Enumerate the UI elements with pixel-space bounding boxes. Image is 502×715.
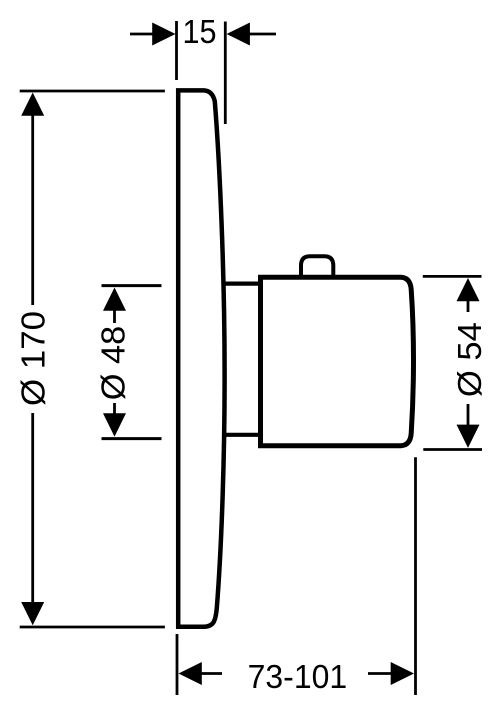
svg-text:Ø 54: Ø 54 (452, 322, 489, 397)
svg-text:Ø 170: Ø 170 (15, 311, 52, 406)
svg-text:Ø 48: Ø 48 (95, 326, 132, 401)
svg-text:73-101: 73-101 (248, 659, 348, 696)
svg-text:15: 15 (183, 14, 217, 51)
